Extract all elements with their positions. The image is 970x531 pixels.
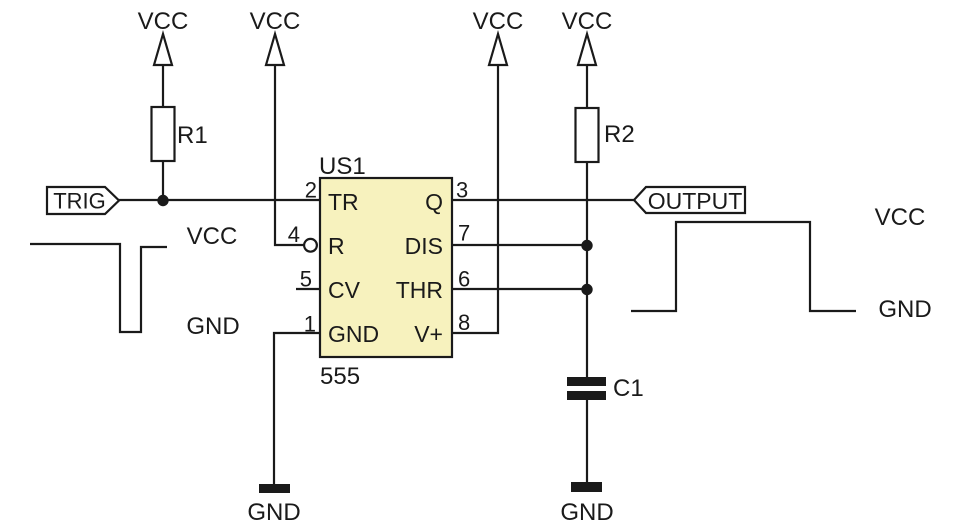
svg-text:TR: TR	[328, 189, 359, 215]
svg-text:R2: R2	[604, 121, 635, 148]
wire pin 8 V+ to VCC3	[452, 65, 498, 333]
input waveform trace	[30, 244, 167, 332]
svg-text:7: 7	[458, 221, 470, 246]
node DIS junction	[581, 240, 592, 251]
wire VCC4 to R2	[586, 65, 588, 108]
wire pin 7 DIS to node	[452, 244, 587, 246]
svg-text:V+: V+	[414, 321, 443, 347]
svg-text:555: 555	[320, 363, 360, 390]
svg-text:GND: GND	[247, 499, 300, 526]
svg-text:VCC: VCC	[875, 204, 926, 231]
node THR junction	[581, 284, 592, 295]
ground GND2 bar	[571, 482, 602, 492]
wire pin 6 THR to node	[452, 288, 587, 290]
svg-text:5: 5	[300, 267, 312, 292]
svg-text:8: 8	[458, 310, 470, 335]
ground GND1 bar	[259, 484, 290, 493]
svg-text:THR: THR	[396, 277, 443, 303]
wire pin 3 to OUTPUT	[452, 199, 634, 201]
svg-text:GND: GND	[328, 321, 379, 347]
svg-text:C1: C1	[613, 375, 644, 402]
wire TRIG to pin 2	[119, 199, 320, 201]
svg-text:VCC: VCC	[187, 223, 238, 250]
svg-text:GND: GND	[186, 313, 239, 340]
svg-text:R: R	[328, 233, 345, 259]
svg-text:US1: US1	[319, 153, 366, 180]
svg-text:1: 1	[304, 312, 316, 337]
power VCC2 arrow	[266, 34, 284, 65]
svg-text:TRIG: TRIG	[53, 189, 106, 214]
svg-text:2: 2	[305, 178, 317, 203]
port TRIG flag	[47, 187, 119, 214]
wire R2 to C1	[586, 162, 588, 377]
power VCC3 arrow	[489, 34, 507, 65]
svg-text:R1: R1	[177, 122, 208, 149]
capacitor C1 bottom plate	[567, 391, 606, 400]
op-amp U1: 555 IC body	[320, 178, 452, 357]
output waveform trace	[631, 222, 856, 311]
capacitor C1 top plate	[567, 377, 606, 386]
wire R1 to trig node	[162, 161, 164, 200]
resistor R2	[576, 108, 599, 162]
wire VCC1 to R1	[162, 65, 164, 107]
port OUTPUT flag	[634, 187, 745, 213]
svg-text:CV: CV	[328, 277, 361, 303]
svg-text:3: 3	[456, 178, 468, 203]
svg-text:DIS: DIS	[405, 233, 443, 259]
wire VCC2 to pin 4	[275, 65, 304, 245]
power VCC1 arrow	[154, 34, 172, 65]
wire pin 5 stub	[296, 288, 320, 290]
svg-text:GND: GND	[560, 499, 613, 526]
wire C1 to ground	[586, 400, 588, 483]
wire pin 1 to ground	[274, 333, 320, 485]
pin 4 inversion bubble	[304, 239, 317, 252]
svg-text:4: 4	[288, 222, 300, 247]
svg-text:Q: Q	[425, 189, 443, 215]
svg-text:GND: GND	[878, 296, 931, 323]
power VCC4 arrow	[578, 34, 596, 65]
svg-text:OUTPUT: OUTPUT	[648, 188, 743, 214]
node trig junction	[157, 195, 168, 206]
svg-text:6: 6	[458, 267, 470, 292]
resistor R1	[152, 107, 175, 161]
